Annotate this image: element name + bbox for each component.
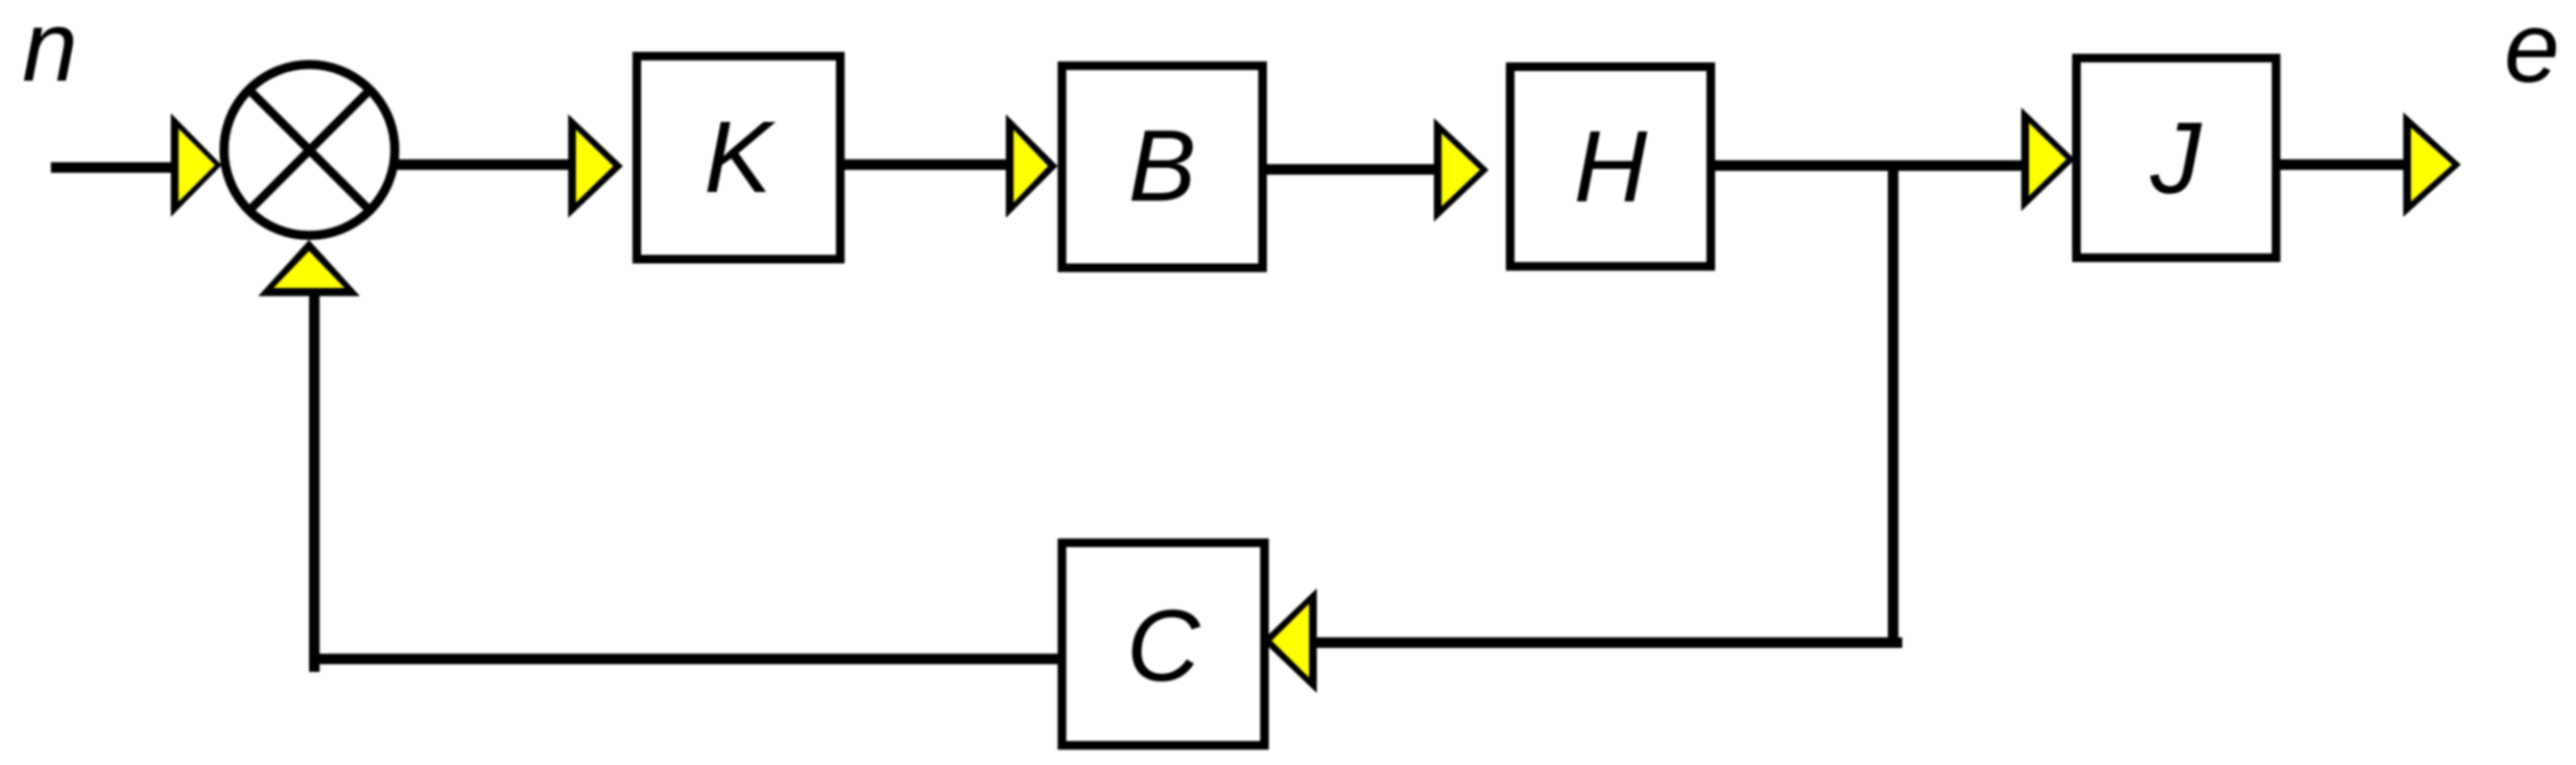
- svg-text:n: n: [22, 0, 78, 103]
- summing junction X diagonal 2: [247, 87, 372, 213]
- wire junction vertical drop: [1888, 165, 1898, 648]
- summing junction X diagonal 1: [247, 87, 372, 213]
- arrowhead at output e: [2403, 112, 2461, 217]
- wire K to B arrow: [838, 159, 1006, 170]
- wire B to H arrow: [1260, 164, 1434, 175]
- arrowhead into H: [1434, 118, 1489, 222]
- arrowhead into C (pointing left): [1262, 588, 1317, 693]
- block B: [1062, 66, 1263, 269]
- block K: [637, 57, 841, 260]
- svg-text:B: B: [1129, 109, 1197, 223]
- svg-text:C: C: [1127, 589, 1202, 703]
- arrowhead into J: [2021, 108, 2075, 211]
- block J: [2077, 59, 2277, 258]
- wire input n to summing junction: [51, 162, 171, 173]
- arrowhead at summing junction input: [171, 113, 222, 217]
- summing junction circle: [224, 64, 394, 235]
- svg-text:e: e: [2504, 0, 2560, 104]
- wire summing junction to K arrow: [395, 159, 568, 170]
- block H: [1511, 67, 1711, 267]
- svg-text:K: K: [704, 101, 776, 214]
- wire J to output arrow: [2278, 159, 2403, 170]
- arrowhead up into summing junction (pointing up): [258, 240, 360, 297]
- wire feedback left vertical up to summing junction: [309, 292, 320, 672]
- arrowhead into K: [568, 114, 623, 218]
- wire H to J arrow: [1713, 160, 2022, 171]
- wire feedback right horizontal into C: [1316, 637, 1902, 648]
- wire feedback bottom-left horizontal from C: [309, 654, 1061, 664]
- arrowhead into B: [1006, 114, 1058, 218]
- block C: [1062, 543, 1265, 746]
- svg-text:J: J: [2150, 102, 2203, 215]
- svg-text:H: H: [1574, 110, 1648, 224]
